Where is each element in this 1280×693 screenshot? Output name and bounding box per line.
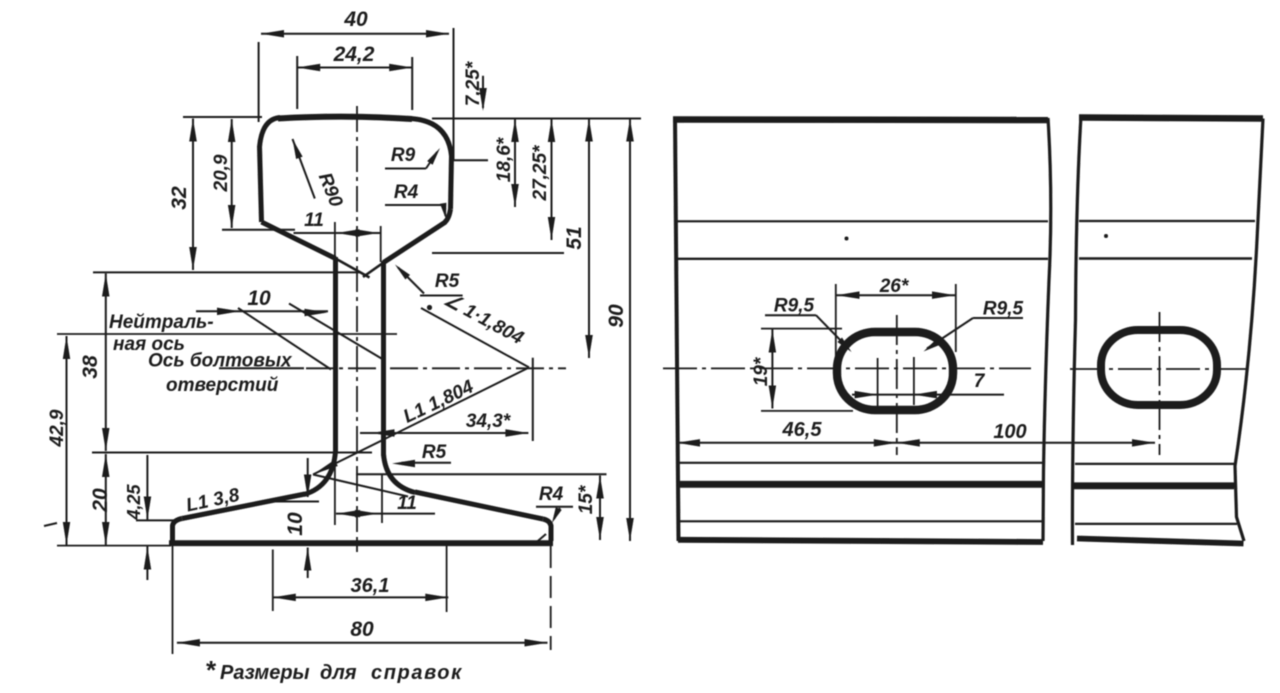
svg-text:80: 80	[350, 618, 374, 641]
svg-text:R5: R5	[435, 271, 460, 292]
svg-text:34,3*: 34,3*	[466, 411, 512, 432]
svg-text:18,6*: 18,6*	[494, 136, 515, 182]
svg-text:51: 51	[563, 226, 586, 249]
svg-text:Размеры: Размеры	[220, 662, 310, 684]
svg-text:10: 10	[247, 287, 271, 310]
svg-text:20: 20	[89, 488, 112, 513]
svg-text:10: 10	[284, 512, 307, 536]
svg-text:R4: R4	[539, 484, 564, 505]
svg-text:40: 40	[343, 8, 368, 31]
svg-text:100: 100	[993, 421, 1026, 443]
svg-text:R9,5: R9,5	[983, 299, 1024, 320]
svg-text:26*: 26*	[879, 276, 910, 297]
svg-text:36,1: 36,1	[351, 575, 390, 597]
svg-text:R9,5: R9,5	[774, 296, 815, 317]
svg-text:4,25: 4,25	[124, 484, 144, 521]
svg-text:42,9: 42,9	[47, 409, 68, 447]
svg-text:46,5: 46,5	[782, 419, 823, 441]
svg-text:R4: R4	[394, 182, 419, 203]
svg-text:Ось болтовых: Ось болтовых	[148, 351, 293, 372]
svg-text:19*: 19*	[751, 356, 772, 386]
svg-text:7: 7	[974, 371, 986, 392]
svg-text:15*: 15*	[576, 484, 597, 514]
svg-text:24,2: 24,2	[333, 43, 375, 66]
svg-text:R9: R9	[391, 145, 416, 166]
svg-text:R5: R5	[422, 442, 447, 463]
svg-text:32: 32	[168, 186, 191, 210]
svg-text:для: для	[320, 662, 357, 684]
svg-text:90: 90	[605, 304, 628, 328]
svg-text:38: 38	[79, 355, 102, 379]
svg-text:11: 11	[304, 210, 324, 231]
svg-text:7,25*: 7,25*	[463, 60, 484, 106]
svg-text:27,25*: 27,25*	[530, 144, 551, 202]
svg-text:справок: справок	[371, 662, 463, 684]
svg-text:Нейтраль-: Нейтраль-	[109, 312, 214, 333]
svg-text:20,9: 20,9	[211, 154, 232, 192]
svg-text:отверстий: отверстий	[166, 375, 279, 396]
